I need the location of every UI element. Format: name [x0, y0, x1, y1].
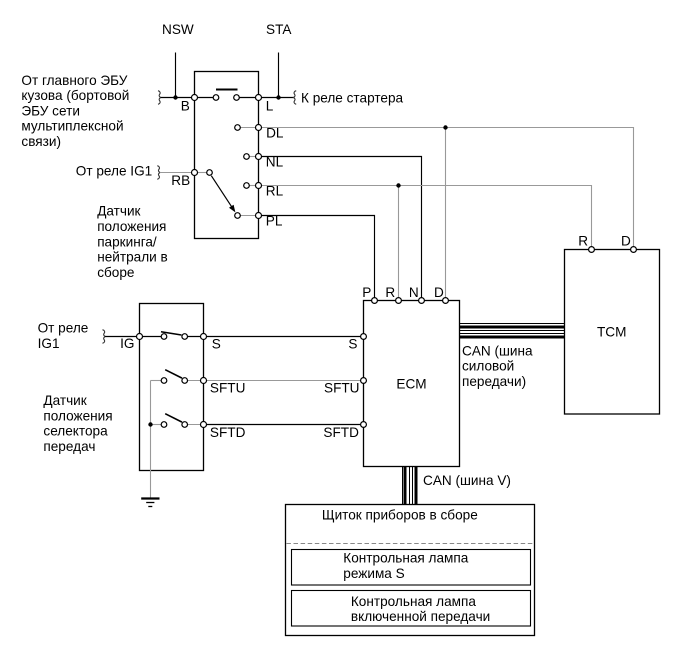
svg-text:Контрольная лампа: Контрольная лампа: [351, 594, 476, 609]
svg-text:От реле IG1: От реле IG1: [76, 164, 152, 179]
svg-text:связи): связи): [21, 134, 61, 149]
svg-text:D: D: [434, 285, 444, 300]
wire-break squiggle at B input: [158, 91, 161, 105]
svg-text:D: D: [621, 233, 631, 248]
svg-text:передач: передач: [43, 439, 95, 454]
indicator lamp box S mode: [292, 550, 531, 586]
svg-text:RB: RB: [171, 173, 190, 188]
dashed separator: [286, 543, 534, 545]
label От главного ЭБУ кузова (бортовой ЭБУ сети мультиплексной связи): [21, 73, 129, 149]
wire DL contact dash: [238, 127, 259, 129]
svg-text:RL: RL: [266, 183, 284, 198]
node junction SFTD/ground: [148, 422, 152, 426]
wire internal ground vertical: [150, 381, 152, 498]
wire SFTU internal dash: [151, 380, 165, 382]
ECM box: [364, 301, 460, 467]
wire PL contact dash: [238, 215, 259, 217]
switch arrow RB to PL: [211, 176, 232, 209]
svg-text:P: P: [362, 285, 371, 300]
wire contact to S terminal: [185, 336, 204, 338]
svg-text:CAN (шина: CAN (шина: [462, 343, 533, 358]
node junction STA/L: [276, 95, 280, 99]
ECM left terminal circles: [361, 334, 367, 340]
switch blade SFTU: [165, 370, 182, 378]
TCM box: [565, 250, 660, 415]
svg-text:мультиплексной: мультиплексной: [21, 119, 123, 134]
svg-text:паркинга/: паркинга/: [97, 234, 157, 249]
label Датчик положения паркинга/нейтрали в сборе: [97, 204, 168, 280]
svg-text:Датчик: Датчик: [43, 393, 87, 408]
node junction RL/R: [396, 183, 400, 187]
wire into terminal B: [161, 97, 216, 99]
TCM terminal circles: [589, 247, 595, 253]
ground symbol: [141, 499, 159, 507]
wire SFTD internal dash: [151, 424, 165, 426]
wire RL to TCM R: [259, 186, 592, 247]
park/neutral position switch box: [195, 72, 259, 239]
svg-text:SFTD: SFTD: [210, 425, 246, 440]
wire SFTU selector to ECM: [204, 380, 364, 382]
wire RL contact dash: [247, 185, 259, 187]
indicator lamp box gear engaged: [292, 591, 531, 627]
svg-text:SFTU: SFTU: [324, 381, 360, 396]
svg-text:Контрольная лампа: Контрольная лампа: [343, 551, 468, 566]
svg-text:IG: IG: [120, 336, 134, 351]
wire-break squiggle at IG input: [103, 330, 106, 344]
shift selector sensor box: [140, 304, 204, 471]
svg-text:NL: NL: [266, 155, 284, 170]
ECM terminal circles P R N D: [372, 298, 378, 304]
svg-text:От главного ЭБУ: От главного ЭБУ: [21, 73, 127, 88]
node junction DL/D: [443, 125, 447, 129]
wire SFTD selector to ECM: [204, 424, 364, 426]
wire IG input: [105, 336, 164, 338]
svg-text:силовой: силовой: [462, 359, 514, 374]
svg-text:CAN (шина V): CAN (шина V): [423, 473, 511, 488]
svg-text:положения: положения: [97, 219, 166, 234]
wire NL to ECM N: [259, 157, 422, 298]
svg-text:IG1: IG1: [38, 336, 60, 351]
svg-text:Щиток приборов в сборе: Щиток приборов в сборе: [322, 508, 478, 523]
node junction NSW/B: [173, 95, 177, 99]
instrument panel box (Щиток приборов в сборе): [286, 505, 535, 636]
wire RL branch down to ECM R: [398, 186, 400, 298]
svg-text:DL: DL: [266, 126, 284, 141]
label CAN (шина силовой передачи): [462, 343, 533, 389]
wire NSW vertical: [175, 53, 177, 98]
svg-text:STA: STA: [266, 22, 292, 37]
svg-text:нейтрали в: нейтрали в: [97, 250, 168, 265]
svg-text:B: B: [181, 98, 190, 113]
wire PL to ECM P: [259, 216, 375, 298]
selector terminal circles: [137, 334, 143, 340]
label Датчик положения селектора передач: [43, 393, 112, 454]
svg-text:передачи): передачи): [462, 374, 526, 389]
switch blade SFTD: [165, 414, 182, 422]
wire RB input: [160, 172, 195, 174]
wire DL to TCM D: [259, 128, 634, 247]
switch blade IG-S: [161, 332, 182, 335]
svg-text:TCM: TCM: [597, 325, 626, 340]
wire S selector to ECM: [204, 336, 364, 338]
svg-text:включенной передачи: включенной передачи: [351, 609, 490, 624]
svg-text:От реле: От реле: [38, 321, 89, 336]
svg-text:SFTU: SFTU: [210, 381, 246, 396]
svg-text:S: S: [348, 337, 357, 352]
label От реле IG1 (selector): [38, 321, 89, 351]
wire DL branch down to ECM D: [445, 128, 447, 298]
svg-text:PL: PL: [266, 214, 283, 229]
svg-text:L: L: [266, 98, 274, 113]
svg-text:сборе: сборе: [97, 265, 134, 280]
wire SFTU contact to terminal: [185, 380, 204, 382]
wire SFTD contact to terminal: [185, 424, 204, 426]
svg-text:R: R: [578, 233, 588, 248]
wire RB to contact: [195, 172, 210, 174]
svg-text:кузова (бортовой: кузова (бортовой: [21, 88, 129, 103]
svg-text:ЭБУ сети: ЭБУ сети: [21, 103, 80, 118]
switch bar contact B-L: [216, 89, 238, 91]
CAN bus ECM-instrument panel (vertical): [403, 467, 417, 505]
svg-text:S: S: [212, 337, 221, 352]
svg-text:SFTD: SFTD: [323, 425, 359, 440]
CAN bus ECM-TCM (horizontal): [460, 324, 565, 338]
svg-text:N: N: [409, 285, 419, 300]
svg-text:Датчик: Датчик: [97, 204, 141, 219]
svg-text:режима S: режима S: [343, 566, 404, 581]
wire-break squiggle at starter relay output: [294, 91, 297, 105]
svg-text:селектора: селектора: [43, 424, 108, 439]
svg-text:ECM: ECM: [396, 376, 426, 391]
wire contact to L and out to starter relay: [237, 97, 294, 99]
terminal circles of park/neutral switch: [192, 95, 198, 101]
svg-text:NSW: NSW: [162, 22, 194, 37]
svg-text:R: R: [385, 285, 395, 300]
wire-break squiggle at RB input: [157, 166, 160, 180]
wire NL contact dash: [247, 156, 259, 158]
wire STA vertical: [278, 53, 280, 98]
svg-text:положения: положения: [43, 408, 112, 423]
svg-text:К реле стартера: К реле стартера: [301, 90, 404, 105]
